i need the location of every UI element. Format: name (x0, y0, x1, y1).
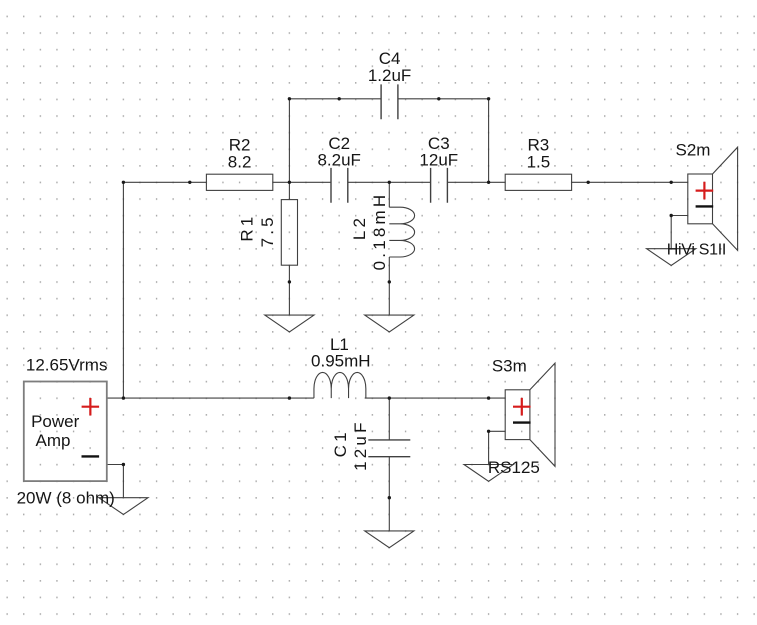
svg-text:Amp: Amp (36, 431, 71, 450)
svg-text:C1: C1 (331, 429, 350, 457)
svg-text:7.5: 7.5 (258, 214, 277, 247)
svg-text:S2m: S2m (676, 140, 711, 159)
svg-text:HiVi S1II: HiVi S1II (667, 242, 726, 259)
svg-text:8.2uF: 8.2uF (317, 151, 360, 170)
svg-text:0.95mH: 0.95mH (311, 351, 371, 370)
svg-text:S3m: S3m (492, 356, 527, 375)
svg-text:1.2uF: 1.2uF (368, 66, 411, 85)
svg-text:20W (8 ohm): 20W (8 ohm) (17, 488, 115, 507)
svg-text:12uF: 12uF (419, 151, 458, 170)
svg-text:1.5: 1.5 (527, 152, 551, 171)
svg-text:Power: Power (31, 412, 80, 431)
svg-text:0.18mH: 0.18mH (370, 192, 389, 271)
svg-text:R1: R1 (238, 214, 257, 242)
svg-text:8.2: 8.2 (228, 152, 252, 171)
svg-text:12uF: 12uF (351, 419, 370, 471)
svg-text:L2: L2 (350, 215, 369, 240)
svg-text:RS125: RS125 (488, 458, 540, 477)
svg-text:12.65Vrms: 12.65Vrms (26, 355, 108, 374)
